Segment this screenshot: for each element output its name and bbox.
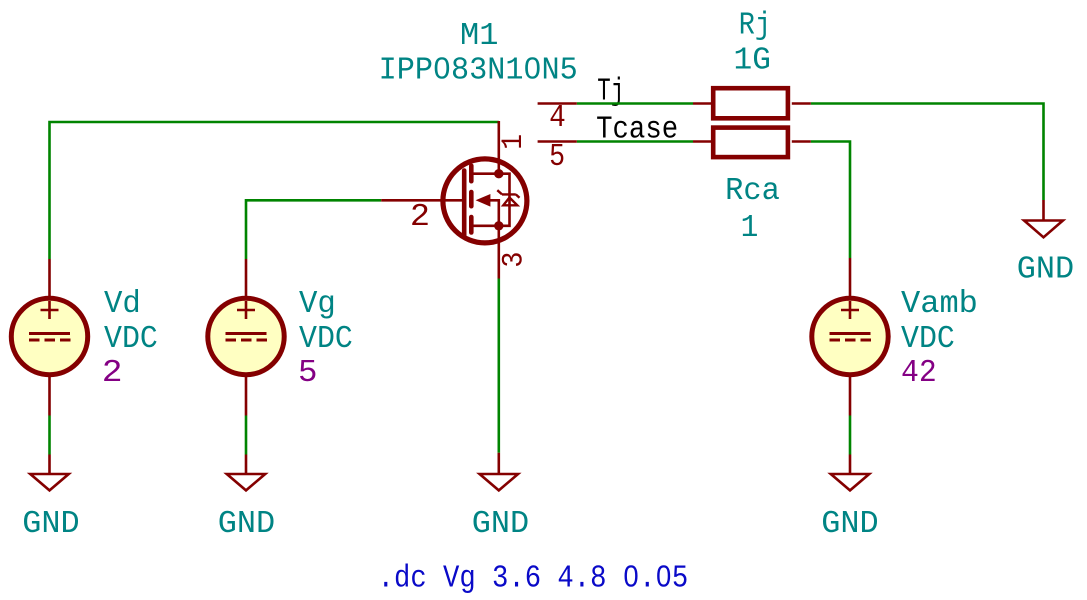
- svg-text:5: 5: [298, 354, 317, 390]
- svg-text:Rca: Rca: [725, 174, 780, 210]
- svg-text:1G: 1G: [734, 43, 771, 78]
- svg-text:GND: GND: [472, 506, 529, 542]
- svg-text:GND: GND: [218, 506, 275, 542]
- svg-text:2: 2: [410, 199, 430, 235]
- svg-text:4: 4: [549, 99, 566, 135]
- svg-text:Vamb: Vamb: [901, 286, 978, 322]
- svg-text:VDC: VDC: [901, 321, 955, 357]
- svg-text:.dc Vg 3.6 4.8 0.05: .dc Vg 3.6 4.8 0.05: [378, 560, 689, 595]
- svg-text:VDC: VDC: [299, 321, 353, 357]
- svg-text:VDC: VDC: [104, 321, 158, 357]
- svg-text:1: 1: [741, 211, 759, 246]
- svg-text:M1: M1: [460, 18, 498, 54]
- svg-text:Rj: Rj: [739, 8, 771, 44]
- svg-text:1: 1: [498, 134, 531, 150]
- svg-text:Vg: Vg: [299, 287, 336, 322]
- svg-text:GND: GND: [821, 506, 878, 542]
- svg-text:IPP083N10N5: IPP083N10N5: [379, 53, 578, 89]
- svg-text:3: 3: [496, 252, 531, 268]
- svg-text:Vd: Vd: [104, 287, 141, 322]
- svg-text:42: 42: [901, 355, 937, 391]
- svg-text:2: 2: [102, 354, 123, 390]
- svg-text:GND: GND: [22, 506, 79, 542]
- svg-text:GND: GND: [1017, 252, 1074, 288]
- svg-text:5: 5: [549, 139, 565, 175]
